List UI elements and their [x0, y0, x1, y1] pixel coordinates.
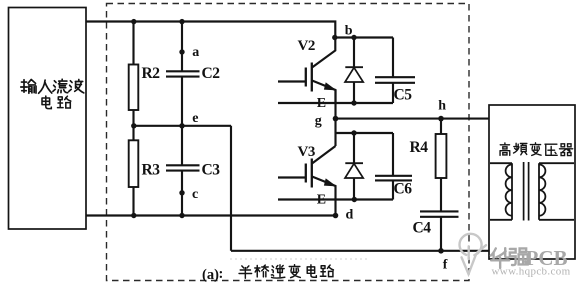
capacitor C4	[420, 211, 459, 250]
svg-text:(a): (a)	[202, 267, 219, 283]
wire g-h line to transformer	[336, 118, 490, 120]
svg-text:b: b	[345, 24, 353, 39]
svg-text:www.hqpcb.com: www.hqpcb.com	[492, 266, 571, 278]
wire node e line	[134, 125, 232, 127]
node: diode D3 top	[351, 130, 356, 135]
faint dotted line above caption	[230, 258, 368, 260]
resistor R2	[129, 22, 139, 127]
svg-text:f: f	[443, 258, 448, 273]
caption text 半桥逆变电路	[239, 265, 333, 279]
dashed enclosure (a)	[107, 4, 470, 281]
label input-filter box text 输入滤波电路	[21, 79, 84, 108]
node: bottom rail C3 tap	[179, 213, 184, 218]
node a	[179, 49, 184, 54]
svg-text:e: e	[192, 111, 198, 126]
wire V3 collector top line	[336, 132, 394, 134]
transistor Q V2 (IGBT)	[278, 38, 336, 104]
node e junction R	[131, 123, 136, 128]
svg-text:E: E	[317, 96, 326, 111]
svg-text:R2: R2	[142, 65, 161, 82]
svg-text:c: c	[192, 187, 198, 202]
svg-text:R3: R3	[142, 161, 161, 178]
svg-text:C3: C3	[202, 161, 221, 178]
node b	[332, 35, 337, 40]
transistor Q V3 (IGBT)	[278, 146, 336, 216]
capacitor C6	[375, 133, 412, 200]
labels latin	[142, 24, 448, 273]
wire node b line	[335, 36, 394, 38]
svg-text:C4: C4	[413, 220, 432, 237]
node e junction C	[179, 123, 184, 128]
node d	[333, 213, 339, 219]
wire V2 emitter to g to V3 collector	[334, 90, 336, 146]
node g	[333, 116, 339, 122]
svg-text:C6: C6	[394, 181, 413, 198]
svg-text::: :	[219, 266, 224, 282]
svg-text:h: h	[438, 99, 446, 114]
node: diode D2 bottom	[351, 100, 356, 105]
capacitor C5	[375, 38, 415, 104]
capacitor C3	[166, 126, 200, 216]
diode D3 (antiparallel of V3)	[345, 133, 363, 200]
transformer box	[489, 105, 575, 259]
capacitor C2	[166, 22, 200, 127]
svg-text:V3: V3	[298, 144, 315, 160]
wire V2 emitter E line	[278, 102, 393, 104]
node: diode D2 top	[351, 35, 356, 40]
node: bottom rail R3 tap	[131, 213, 136, 218]
svg-text:a: a	[192, 45, 199, 60]
svg-text:C2: C2	[202, 65, 221, 82]
diode D2 (antiparallel of V2)	[345, 38, 363, 104]
node: top rail R2 tap	[131, 19, 136, 24]
bottom rail wire	[86, 214, 336, 216]
svg-text:g: g	[315, 114, 322, 129]
resistor R3	[129, 126, 139, 216]
watermark text 华强	[491, 248, 528, 268]
transformer core	[524, 162, 529, 221]
wire e to f vertical	[230, 126, 232, 251]
node h	[438, 116, 444, 122]
wire bottom line to f and transformer	[231, 250, 489, 252]
svg-text:C5: C5	[394, 87, 413, 104]
svg-text:d: d	[346, 207, 354, 222]
svg-text:R4: R4	[410, 139, 429, 156]
node: top rail C2 tap	[179, 19, 184, 24]
watermark logo	[460, 234, 486, 274]
node: diode D3 bottom	[352, 197, 357, 202]
svg-text:E: E	[317, 192, 326, 207]
top rail wire	[86, 22, 335, 38]
resistor R4	[436, 119, 447, 211]
wire V3 emitter E line	[278, 198, 393, 200]
transformer T1 windings	[490, 163, 574, 220]
node f	[438, 248, 444, 254]
node c	[179, 190, 184, 195]
input filter box	[9, 8, 87, 230]
svg-text:V2: V2	[298, 38, 315, 54]
label transformer box text 高频变压器	[500, 143, 573, 156]
